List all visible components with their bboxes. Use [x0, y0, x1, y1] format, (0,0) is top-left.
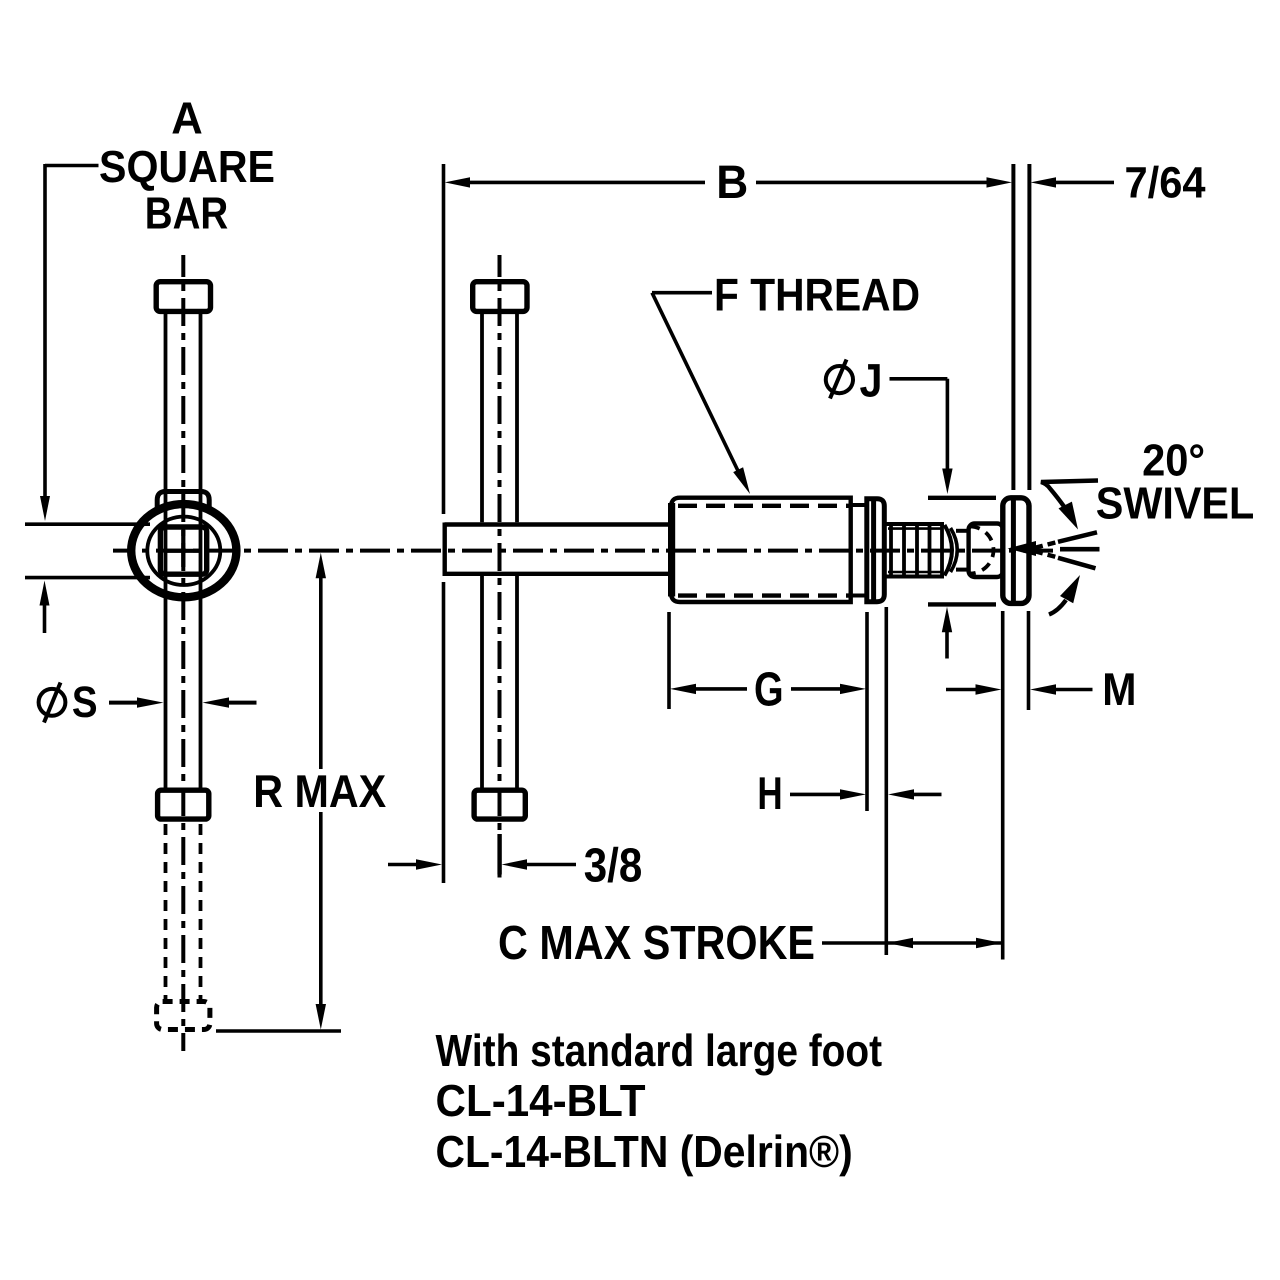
swivel ray lower solid: [1058, 558, 1096, 569]
foot face extension line above: [1011, 164, 1015, 490]
svg-text:J: J: [860, 354, 883, 407]
svg-text:R MAX: R MAX: [253, 765, 386, 817]
B dimension line left: [468, 181, 705, 185]
svg-text:C MAX STROKE: C MAX STROKE: [498, 917, 815, 970]
B dimension line right: [756, 181, 988, 185]
square bar cross-section: [160, 527, 206, 574]
svg-text:7/64: 7/64: [1125, 158, 1206, 207]
svg-text:A: A: [171, 93, 203, 144]
B left arrow: [445, 177, 470, 187]
swivel foot: [1003, 498, 1029, 604]
square bar top extension line: [25, 522, 150, 526]
center cross dashes: [166, 549, 201, 553]
boss inner ring: [147, 517, 220, 585]
svg-text:3/8: 3/8: [584, 840, 643, 893]
svg-text:S: S: [72, 678, 98, 727]
swivel neck top: [956, 529, 969, 533]
label ØS: [39, 689, 66, 716]
vertical centerline (front view): [181, 255, 185, 1051]
svg-text:G: G: [754, 663, 784, 716]
internal thread dashed bottom: [678, 593, 849, 597]
flange: [867, 499, 885, 602]
G left extension line: [667, 612, 671, 709]
screw thread root top: [888, 527, 942, 530]
handle bar left edge (front): [164, 314, 168, 788]
F THREAD leader diagonal: [652, 293, 740, 475]
handle top cap (front): [156, 282, 210, 312]
ØJ leader vertical: [946, 379, 950, 470]
R MAX dimension line upper: [319, 575, 323, 769]
F THREAD leader horizontal: [652, 291, 712, 295]
swivel ray upper solid: [1058, 532, 1097, 542]
svg-text:F THREAD: F THREAD: [714, 268, 920, 320]
20 degree swivel fan: main arrowhead: [1008, 541, 1037, 556]
B right arrow: [987, 177, 1013, 187]
handle bar left edge (side): [480, 314, 484, 522]
screw thread root bottom: [888, 571, 942, 574]
hidden extended bar dashed left: [164, 824, 168, 999]
thread line 4: [928, 524, 932, 577]
foot left extension line below: [1001, 611, 1005, 960]
ØJ top reference line: [928, 496, 996, 500]
svg-text:With standard large foot: With standard large foot: [436, 1025, 883, 1076]
screw end dome arc inner: [951, 528, 958, 572]
svg-text:CL-14-BLT: CL-14-BLT: [436, 1075, 646, 1126]
vertical centerline (side view): [498, 255, 502, 878]
flange inner line: [871, 499, 876, 602]
leader A vertical: [43, 164, 47, 497]
swivel ray middle solid: [1060, 547, 1100, 552]
foot back extension line above: [1027, 164, 1031, 490]
swivel neck bottom: [956, 568, 969, 572]
R MAX dimension line lower: [319, 812, 323, 1007]
svg-text:H: H: [757, 767, 782, 819]
flange right extension line: [884, 607, 888, 955]
square bar bottom extension line: [25, 576, 150, 580]
ØJ bottom reference line: [928, 602, 996, 606]
horizontal centerline (shared axis): [113, 549, 1054, 553]
leader A horizontal: [45, 164, 99, 168]
spindle rod left end edge: [443, 523, 447, 577]
ØS left arrow: [109, 701, 138, 705]
ØJ down arrow: [942, 469, 952, 495]
swivel top arc arrowhead: [1059, 502, 1079, 530]
R MAX bottom arrow: [316, 1004, 326, 1030]
spindle rod bottom edge: [445, 572, 671, 576]
F THREAD arrow: [733, 467, 750, 494]
label ØJ: [826, 366, 853, 393]
swivel ray upper dashed: [1035, 542, 1056, 548]
svg-text:SWIVEL: SWIVEL: [1096, 477, 1255, 528]
screw thread crest top: [887, 522, 945, 526]
G dimension: [670, 684, 696, 694]
R MAX top arrow: [316, 553, 326, 579]
hidden ball dashed outline: [970, 527, 994, 574]
internal thread dashed top: [678, 504, 849, 508]
ØJ leader horizontal: [890, 377, 948, 381]
handle lower cap (side): [474, 790, 525, 819]
svg-text:M: M: [1102, 663, 1136, 715]
spindle rod top edge: [445, 522, 671, 526]
svg-text:CL-14-BLTN (Delrin®): CL-14-BLTN (Delrin®): [436, 1126, 853, 1177]
ØS right arrow: [228, 701, 257, 705]
square-bar boss plate behind circle: [157, 492, 209, 567]
handle top cap (side): [473, 282, 527, 312]
svg-text:BAR: BAR: [145, 188, 229, 239]
foot right extension line below: [1027, 611, 1031, 710]
swivel ray lower dashed: [1035, 551, 1056, 557]
B left extension line upper: [442, 164, 446, 514]
svg-text:SQUARE: SQUARE: [99, 141, 275, 192]
foot face line: [1011, 501, 1016, 602]
cylinder left end face thick edge: [668, 503, 675, 597]
hidden extended bar dashed right: [199, 824, 203, 999]
thread line 2: [902, 524, 906, 577]
handle bar right edge (front): [199, 314, 203, 788]
7/64 arrow: [1031, 177, 1057, 187]
arrow A down: [40, 496, 50, 521]
ØJ up arrow below: [942, 607, 952, 633]
swivel bottom arc arrowhead: [1060, 575, 1080, 603]
arrow up to square bar bottom: [40, 581, 50, 606]
threaded body cylinder: [671, 498, 851, 602]
R MAX bottom reference line: [216, 1029, 341, 1033]
swivel bottom arc: [1049, 600, 1066, 615]
boss outer ring: [131, 504, 236, 597]
thread line 1: [889, 524, 893, 577]
ball head block: [969, 524, 1004, 578]
3/8 dimension: [388, 863, 418, 867]
thread line 5: [940, 524, 944, 577]
screw end dome arc outer: [945, 525, 953, 576]
hidden extended cap dashed: [157, 1002, 210, 1030]
handle lower cap (front): [158, 790, 209, 819]
M dimension: [946, 688, 977, 692]
thread line 3: [915, 524, 919, 577]
screw thread crest bottom: [887, 575, 945, 579]
swivel top line and arc: [1041, 481, 1098, 507]
B left extension line lower: [442, 582, 446, 883]
svg-text:B: B: [716, 155, 748, 208]
handle bar right edge (side): [515, 314, 519, 522]
neck between cylinder and flange bottom: [851, 594, 866, 598]
flange left extension line: [865, 612, 869, 811]
neck between cylinder and flange top: [851, 503, 866, 507]
